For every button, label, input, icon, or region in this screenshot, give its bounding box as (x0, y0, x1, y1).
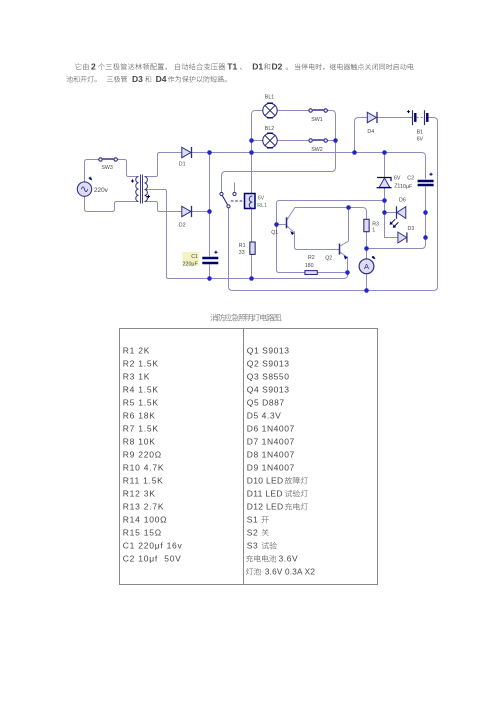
svg-text:SW3: SW3 (101, 165, 113, 171)
svg-text:6V: 6V (417, 137, 424, 143)
svg-text:D6 1N4007: D6 1N4007 (247, 424, 295, 434)
svg-text:C2 10μf 50V: C2 10μf 50V (123, 554, 182, 564)
svg-text:T1: T1 (227, 62, 237, 72)
svg-text:Q2 S9013: Q2 S9013 (247, 359, 290, 369)
svg-text:C1: C1 (191, 254, 198, 260)
svg-text:R12 3K: R12 3K (123, 489, 156, 499)
svg-text:D7 1N4007: D7 1N4007 (247, 437, 295, 447)
svg-text:D4: D4 (156, 74, 167, 84)
svg-text:R1: R1 (239, 243, 246, 249)
svg-text:6V: 6V (258, 195, 265, 201)
svg-text:R6 18K: R6 18K (123, 411, 156, 421)
svg-text:10μF: 10μF (400, 184, 413, 190)
svg-text:D8 1N4007: D8 1N4007 (247, 450, 295, 460)
svg-text:C2: C2 (407, 176, 414, 182)
svg-text:SW2: SW2 (311, 147, 323, 153)
svg-text:R3: R3 (372, 222, 379, 228)
svg-text:D2: D2 (272, 62, 283, 72)
svg-text:BL1: BL1 (265, 94, 274, 100)
svg-text:3.6V 0.3A X2: 3.6V 0.3A X2 (265, 568, 315, 577)
svg-text:R14 100Ω: R14 100Ω (123, 515, 168, 525)
svg-text:D1: D1 (252, 62, 263, 72)
svg-text:R4 1.5K: R4 1.5K (123, 385, 159, 395)
svg-text:6V: 6V (394, 176, 401, 182)
svg-text:R10 4.7K: R10 4.7K (123, 463, 164, 473)
svg-text:R1 2K: R1 2K (123, 346, 150, 356)
svg-text:R13 2.7K: R13 2.7K (123, 502, 164, 512)
svg-text:C1 220μf 16v: C1 220μf 16v (123, 541, 183, 551)
svg-text:D1: D1 (179, 161, 186, 167)
svg-text:Q5 D887: Q5 D887 (247, 398, 285, 408)
svg-text:R2 1.5K: R2 1.5K (123, 359, 159, 369)
svg-text:Q1 S9013: Q1 S9013 (247, 346, 290, 356)
svg-text:S1: S1 (247, 515, 258, 525)
svg-text:R2: R2 (308, 255, 315, 261)
svg-text:33: 33 (239, 250, 245, 256)
svg-text:180: 180 (305, 263, 314, 269)
svg-text:D6: D6 (399, 198, 406, 204)
svg-text:S2: S2 (247, 528, 258, 538)
svg-text:SW1: SW1 (311, 117, 323, 123)
svg-text:RL1: RL1 (257, 203, 267, 209)
svg-text:D4: D4 (367, 129, 374, 135)
svg-text:220μF: 220μF (183, 262, 199, 268)
svg-text:D12 LED: D12 LED (247, 502, 284, 512)
svg-text:3.6V: 3.6V (279, 554, 299, 564)
svg-text:Q1: Q1 (271, 230, 278, 236)
svg-text:S3: S3 (247, 541, 258, 551)
svg-text:R7 1.5K: R7 1.5K (123, 424, 159, 434)
svg-text:R11 1.5K: R11 1.5K (123, 476, 164, 486)
svg-text:R9 220Ω: R9 220Ω (123, 450, 162, 460)
svg-text:220v: 220v (94, 187, 109, 194)
svg-text:R8 10K: R8 10K (123, 437, 156, 447)
svg-text:R15 15Ω: R15 15Ω (123, 528, 162, 538)
svg-text:BL2: BL2 (265, 126, 274, 132)
svg-text:D11 LED: D11 LED (247, 489, 283, 499)
svg-text:Q2: Q2 (325, 256, 332, 262)
svg-text:.: . (280, 315, 282, 322)
svg-text:Q4 S9013: Q4 S9013 (247, 385, 290, 395)
svg-text:D3: D3 (408, 226, 415, 232)
svg-text:D3: D3 (132, 74, 143, 84)
svg-text:D9 1N4007: D9 1N4007 (247, 463, 295, 473)
svg-text:D2: D2 (179, 223, 186, 229)
svg-text:D5 4.3V: D5 4.3V (247, 411, 282, 421)
svg-text:Q3 S8550: Q3 S8550 (247, 372, 290, 382)
svg-text:1: 1 (372, 228, 375, 234)
svg-text:R5 1.5K: R5 1.5K (123, 398, 159, 408)
svg-text:D10 LED: D10 LED (247, 476, 284, 486)
svg-text:2: 2 (91, 62, 96, 72)
svg-text:R3 1K: R3 1K (123, 372, 150, 382)
svg-text:B1: B1 (417, 129, 424, 135)
